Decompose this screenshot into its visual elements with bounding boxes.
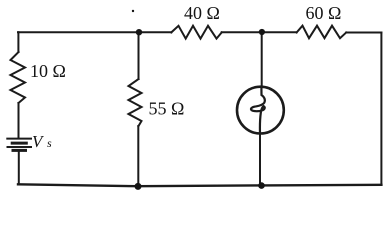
battery source Vs short plate 2	[13, 149, 26, 152]
svg-text:60 Ω: 60 Ω	[306, 3, 342, 23]
wire lamp branch lower	[259, 134, 261, 186]
wire bottom horizontal	[18, 184, 381, 186]
junction node top of 55 ohm branch	[136, 29, 142, 35]
wire left vertical upper	[17, 32, 19, 52]
svg-text:10 Ω: 10 Ω	[30, 61, 66, 81]
wire branch 55 ohm lower	[137, 126, 139, 186]
battery source Vs short plate 1	[12, 142, 26, 145]
wire left vertical middle	[18, 103, 20, 138]
battery source Vs long plate 1	[7, 138, 31, 140]
svg-text:55 Ω: 55 Ω	[149, 99, 185, 119]
wire left vertical lower	[18, 152, 20, 185]
junction node bottom of 55 ohm branch	[135, 183, 142, 190]
junction node bottom of lamp branch	[258, 182, 265, 189]
resistor 55 ohm	[129, 79, 142, 126]
resistor 10 ohm	[11, 52, 26, 103]
lamp filament loop	[251, 87, 265, 133]
svg-text:s: s	[47, 136, 52, 150]
battery source Vs long plate 2	[8, 146, 32, 148]
wire branch 55 ohm upper	[138, 32, 140, 79]
wire top middle segment	[222, 31, 297, 33]
lamp circle	[237, 87, 284, 134]
wire top-right horizontal segment	[346, 32, 381, 34]
svg-text:V: V	[32, 132, 45, 151]
resistor 60 ohm	[297, 26, 347, 39]
svg-text:40 Ω: 40 Ω	[184, 3, 220, 23]
wire top-left horizontal segment	[18, 31, 171, 33]
wire right vertical	[380, 33, 382, 185]
stray speck	[132, 10, 134, 12]
wire lamp branch upper	[261, 32, 263, 87]
resistor 40 ohm	[171, 26, 221, 39]
junction node top of lamp branch	[259, 29, 265, 35]
